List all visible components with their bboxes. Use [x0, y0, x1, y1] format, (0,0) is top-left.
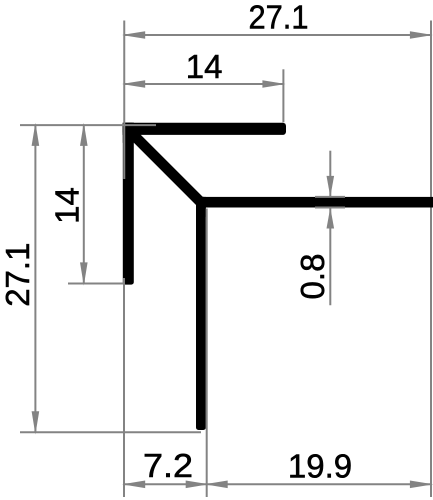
svg-text:14: 14	[186, 48, 223, 85]
extension line right (x=431, top 27.1 / bottom 19.9)	[430, 21, 432, 498]
dimension line right 0.8 (vertical, arrows outside)	[327, 151, 335, 306]
extension line y=283.5 (left 14 bottom)	[68, 283, 125, 285]
extension line y=432.3 (left 27.1 bottom)	[20, 431, 201, 433]
profile right leg	[196, 197, 433, 208]
svg-text:14: 14	[49, 187, 86, 224]
dimension line top 14	[122, 80, 286, 88]
profile left leg	[123, 123, 134, 285]
extension line x=206.7 (bottom junction)	[206, 209, 208, 498]
extension tick y=197 (0.8 top)	[315, 196, 345, 198]
svg-text:0.8: 0.8	[294, 254, 331, 300]
extension tick y=207.5 (0.8 bottom)	[315, 207, 345, 209]
svg-text:19.9: 19.9	[288, 448, 352, 485]
dimension line left 14	[80, 123, 88, 286]
extension line left vertical (x=124, top dims)	[123, 21, 125, 180]
svg-text:7.2: 7.2	[143, 447, 193, 484]
dimension line left 27.1	[32, 123, 40, 435]
profile diagonal web	[127, 129, 203, 205]
profile top leg	[123, 123, 286, 135]
extension line x=283.4 (top 14 right)	[282, 69, 284, 122]
dimension line bottom 7.2	[122, 481, 209, 489]
extension line x=124 (bottom 7.2 left)	[123, 278, 125, 497]
profile bottom leg	[196, 197, 206, 430]
svg-text:27.1: 27.1	[249, 0, 309, 36]
extension line y=125 (left dims top)	[20, 124, 156, 126]
dimension line top 27.1	[122, 31, 433, 39]
dimension line bottom 19.9	[205, 481, 433, 489]
svg-text:27.1: 27.1	[0, 243, 36, 307]
